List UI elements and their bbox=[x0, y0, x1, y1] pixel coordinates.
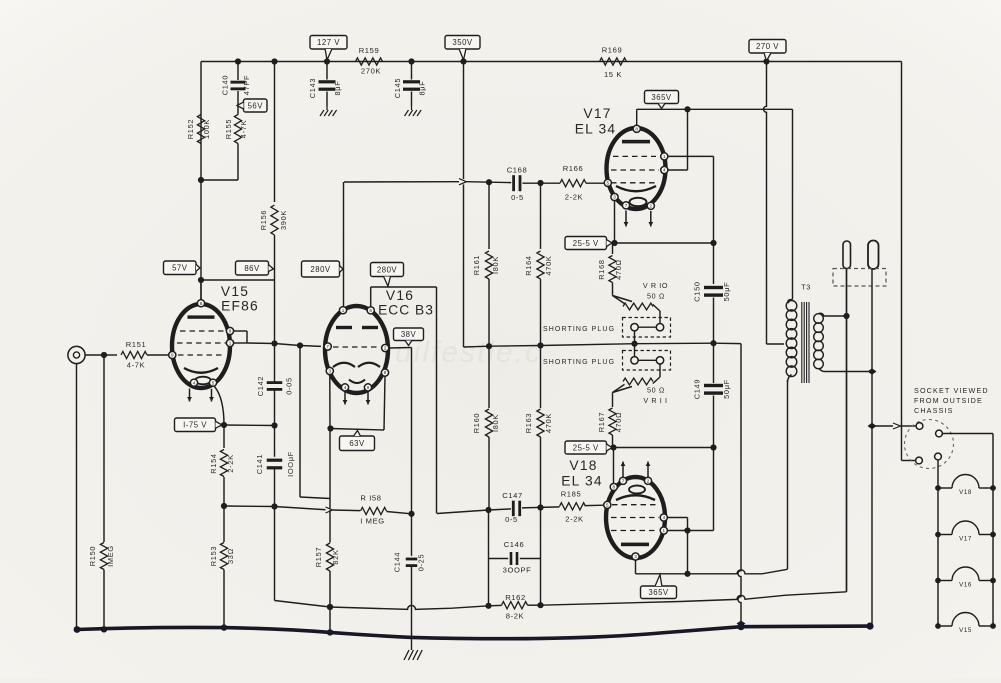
svg-text:50μF: 50μF bbox=[722, 282, 731, 302]
svg-text:350V: 350V bbox=[452, 38, 473, 47]
svg-text:2-2K: 2-2K bbox=[565, 515, 583, 524]
svg-text:V R IO: V R IO bbox=[643, 281, 668, 290]
svg-text:I-75 V: I-75 V bbox=[183, 421, 207, 430]
svg-text:50 Ω: 50 Ω bbox=[647, 386, 665, 395]
svg-text:8μF: 8μF bbox=[333, 81, 342, 96]
svg-text:4: 4 bbox=[663, 515, 666, 520]
svg-text:63V: 63V bbox=[349, 439, 365, 448]
svg-text:33Ω: 33Ω bbox=[226, 548, 235, 564]
svg-text:R167: R167 bbox=[597, 412, 606, 432]
svg-text:EL 34: EL 34 bbox=[561, 474, 603, 489]
svg-text:R150: R150 bbox=[88, 546, 97, 566]
svg-text:EF86: EF86 bbox=[221, 299, 259, 314]
svg-text:R160: R160 bbox=[472, 413, 481, 433]
svg-text:R I58: R I58 bbox=[360, 494, 381, 503]
svg-text:8μF: 8μF bbox=[418, 81, 427, 96]
svg-text:5: 5 bbox=[212, 380, 215, 385]
svg-text:FROM OUTSIDE: FROM OUTSIDE bbox=[914, 396, 983, 405]
svg-text:6: 6 bbox=[369, 308, 372, 313]
svg-text:0-5: 0-5 bbox=[511, 193, 524, 202]
svg-text:3: 3 bbox=[613, 195, 616, 200]
svg-text:4-7K: 4-7K bbox=[239, 120, 248, 138]
svg-text:V16: V16 bbox=[386, 288, 414, 303]
svg-text:3: 3 bbox=[634, 554, 637, 559]
svg-text:IOOμF: IOOμF bbox=[286, 451, 295, 477]
svg-text:8: 8 bbox=[384, 370, 387, 375]
svg-text:47PF: 47PF bbox=[242, 75, 251, 95]
svg-text:C140: C140 bbox=[221, 75, 230, 95]
svg-text:I MEG: I MEG bbox=[360, 517, 385, 526]
svg-text:V17: V17 bbox=[959, 536, 972, 543]
svg-text:R154: R154 bbox=[209, 453, 218, 473]
svg-text:C146: C146 bbox=[504, 540, 525, 549]
svg-text:C145: C145 bbox=[393, 78, 402, 98]
svg-text:7: 7 bbox=[326, 344, 329, 349]
svg-text:280V: 280V bbox=[377, 265, 398, 274]
svg-text:7: 7 bbox=[622, 478, 625, 483]
svg-text:1: 1 bbox=[342, 308, 345, 313]
svg-text:3: 3 bbox=[329, 369, 332, 374]
svg-text:3OOPF: 3OOPF bbox=[503, 566, 532, 575]
svg-text:2-2K: 2-2K bbox=[565, 193, 583, 202]
svg-text:R163: R163 bbox=[524, 413, 533, 433]
svg-text:5: 5 bbox=[607, 180, 610, 185]
svg-text:C141: C141 bbox=[255, 454, 264, 474]
svg-text:8-2K: 8-2K bbox=[506, 612, 524, 621]
svg-text:270 V: 270 V bbox=[756, 42, 779, 51]
svg-text:V15: V15 bbox=[221, 284, 249, 299]
svg-text:I80K: I80K bbox=[491, 414, 500, 432]
svg-text:7: 7 bbox=[625, 203, 628, 208]
svg-text:270K: 270K bbox=[361, 67, 381, 76]
svg-text:25-5 V: 25-5 V bbox=[573, 239, 599, 248]
svg-text:1: 1 bbox=[229, 341, 232, 346]
svg-text:2: 2 bbox=[647, 478, 650, 483]
svg-text:0-05: 0-05 bbox=[285, 377, 294, 395]
svg-text:ECC B3: ECC B3 bbox=[378, 303, 434, 318]
svg-text:C143: C143 bbox=[308, 78, 317, 98]
svg-text:R162: R162 bbox=[505, 593, 526, 602]
svg-text:R157: R157 bbox=[314, 547, 323, 567]
svg-text:R168: R168 bbox=[597, 259, 606, 279]
svg-text:C168: C168 bbox=[507, 166, 528, 175]
svg-text:V18: V18 bbox=[959, 489, 972, 496]
svg-text:V16: V16 bbox=[959, 582, 972, 589]
svg-text:C149: C149 bbox=[693, 379, 702, 399]
svg-text:38V: 38V bbox=[401, 330, 417, 339]
svg-text:R166: R166 bbox=[563, 164, 584, 173]
svg-text:EL 34: EL 34 bbox=[575, 122, 617, 137]
svg-text:8: 8 bbox=[229, 329, 232, 334]
svg-text:0-5: 0-5 bbox=[505, 515, 518, 524]
svg-text:V R I I: V R I I bbox=[643, 396, 667, 405]
svg-text:SOCKET VIEWED: SOCKET VIEWED bbox=[914, 386, 989, 395]
svg-text:IMEG: IMEG bbox=[106, 545, 115, 567]
svg-text:50 Ω: 50 Ω bbox=[647, 292, 665, 301]
svg-text:R151: R151 bbox=[126, 340, 147, 349]
svg-text:1: 1 bbox=[663, 528, 666, 533]
svg-text:R161: R161 bbox=[472, 255, 481, 275]
svg-text:R169: R169 bbox=[602, 46, 623, 55]
svg-text:365V: 365V bbox=[648, 588, 669, 597]
svg-text:5: 5 bbox=[606, 503, 609, 508]
svg-text:V17: V17 bbox=[583, 106, 611, 121]
svg-text:57V: 57V bbox=[172, 264, 188, 273]
svg-text:C142: C142 bbox=[256, 376, 265, 396]
svg-text:390K: 390K bbox=[279, 210, 288, 230]
svg-text:2-2K: 2-2K bbox=[226, 454, 235, 472]
svg-text:470K: 470K bbox=[544, 413, 553, 433]
svg-text:V18: V18 bbox=[569, 458, 597, 473]
svg-text:365V: 365V bbox=[651, 93, 672, 102]
svg-text:470Ω: 470Ω bbox=[614, 259, 623, 280]
svg-text:8: 8 bbox=[635, 126, 638, 131]
svg-text:2: 2 bbox=[384, 346, 387, 351]
svg-text:86V: 86V bbox=[244, 264, 260, 273]
svg-text:V15: V15 bbox=[959, 627, 972, 634]
svg-text:CHASSIS: CHASSIS bbox=[914, 406, 954, 415]
svg-text:4: 4 bbox=[344, 385, 347, 390]
svg-text:4-7K: 4-7K bbox=[127, 361, 145, 370]
svg-text:15 K: 15 K bbox=[604, 70, 622, 79]
svg-text:R185: R185 bbox=[561, 490, 582, 499]
svg-text:SHORTING PLUG: SHORTING PLUG bbox=[543, 326, 615, 333]
svg-text:4: 4 bbox=[193, 380, 196, 385]
svg-text:2: 2 bbox=[650, 203, 653, 208]
svg-text:C144: C144 bbox=[393, 552, 402, 572]
svg-text:C147: C147 bbox=[502, 491, 523, 500]
svg-text:T3: T3 bbox=[801, 283, 811, 292]
svg-text:50μF: 50μF bbox=[722, 379, 731, 399]
svg-text:280V: 280V bbox=[310, 265, 331, 274]
svg-text:R159: R159 bbox=[359, 46, 380, 55]
svg-text:470Ω: 470Ω bbox=[614, 412, 623, 433]
svg-text:470K: 470K bbox=[544, 255, 553, 275]
svg-text:9: 9 bbox=[367, 385, 370, 390]
svg-text:6: 6 bbox=[200, 301, 203, 306]
svg-text:9: 9 bbox=[171, 353, 174, 358]
svg-text:R164: R164 bbox=[524, 255, 533, 275]
svg-text:0-25: 0-25 bbox=[417, 554, 426, 572]
svg-text:82K: 82K bbox=[331, 549, 340, 564]
svg-text:25-5 V: 25-5 V bbox=[573, 443, 599, 452]
svg-text:I80K: I80K bbox=[491, 256, 500, 274]
svg-text:8: 8 bbox=[613, 485, 616, 490]
svg-text:4: 4 bbox=[663, 168, 666, 173]
svg-text:R152: R152 bbox=[186, 119, 195, 139]
svg-text:56V: 56V bbox=[248, 101, 264, 110]
svg-text:R156: R156 bbox=[259, 210, 268, 230]
svg-text:100K: 100K bbox=[202, 119, 211, 139]
svg-text:C150: C150 bbox=[693, 281, 702, 301]
svg-text:SHORTING PLUG: SHORTING PLUG bbox=[543, 359, 615, 366]
svg-text:R153: R153 bbox=[209, 546, 218, 566]
svg-text:R155: R155 bbox=[224, 119, 233, 139]
svg-text:1: 1 bbox=[663, 154, 666, 159]
svg-text:127 V: 127 V bbox=[317, 38, 340, 47]
